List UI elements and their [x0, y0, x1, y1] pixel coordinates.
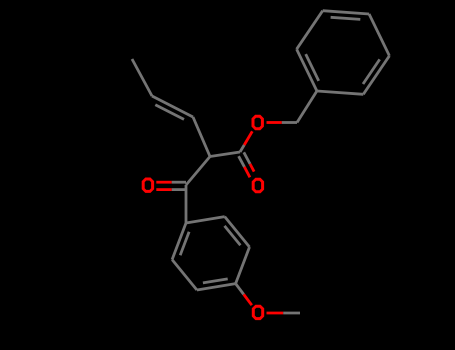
bond ring1-O4 (aryl to methoxy O) — [236, 284, 252, 306]
double bond C2=O3 (ketone) — [156, 182, 186, 189]
benzyl phenyl ring — [297, 11, 390, 95]
atom O3 (ketone =O) — [142, 178, 154, 193]
chain bond CA-A1 — [193, 117, 210, 157]
bond O1-C1 (ester O to carbonyl C) — [240, 131, 252, 152]
bond C2-CA — [186, 157, 210, 186]
bond O4-CH3 (methoxy methyl) — [267, 312, 301, 315]
bond O1-CH2 (ester O to benzyl CH2) — [267, 121, 298, 124]
bond C2-ring1 ipso — [185, 185, 188, 223]
double bond C1=O2 — [239, 152, 255, 177]
bond CA-C1 — [210, 152, 240, 157]
atom O1 (ester -O-) — [252, 115, 264, 130]
chain bond A2-A3 (terminal methyl) — [132, 59, 152, 96]
4-methoxyphenyl ring — [172, 217, 249, 290]
atom O4 (methoxy O) — [252, 305, 264, 320]
chain double bond A1=A2 — [152, 96, 193, 119]
atom O2 (ester =O) — [252, 178, 264, 193]
bond CB-ring2 ipso — [297, 91, 317, 123]
